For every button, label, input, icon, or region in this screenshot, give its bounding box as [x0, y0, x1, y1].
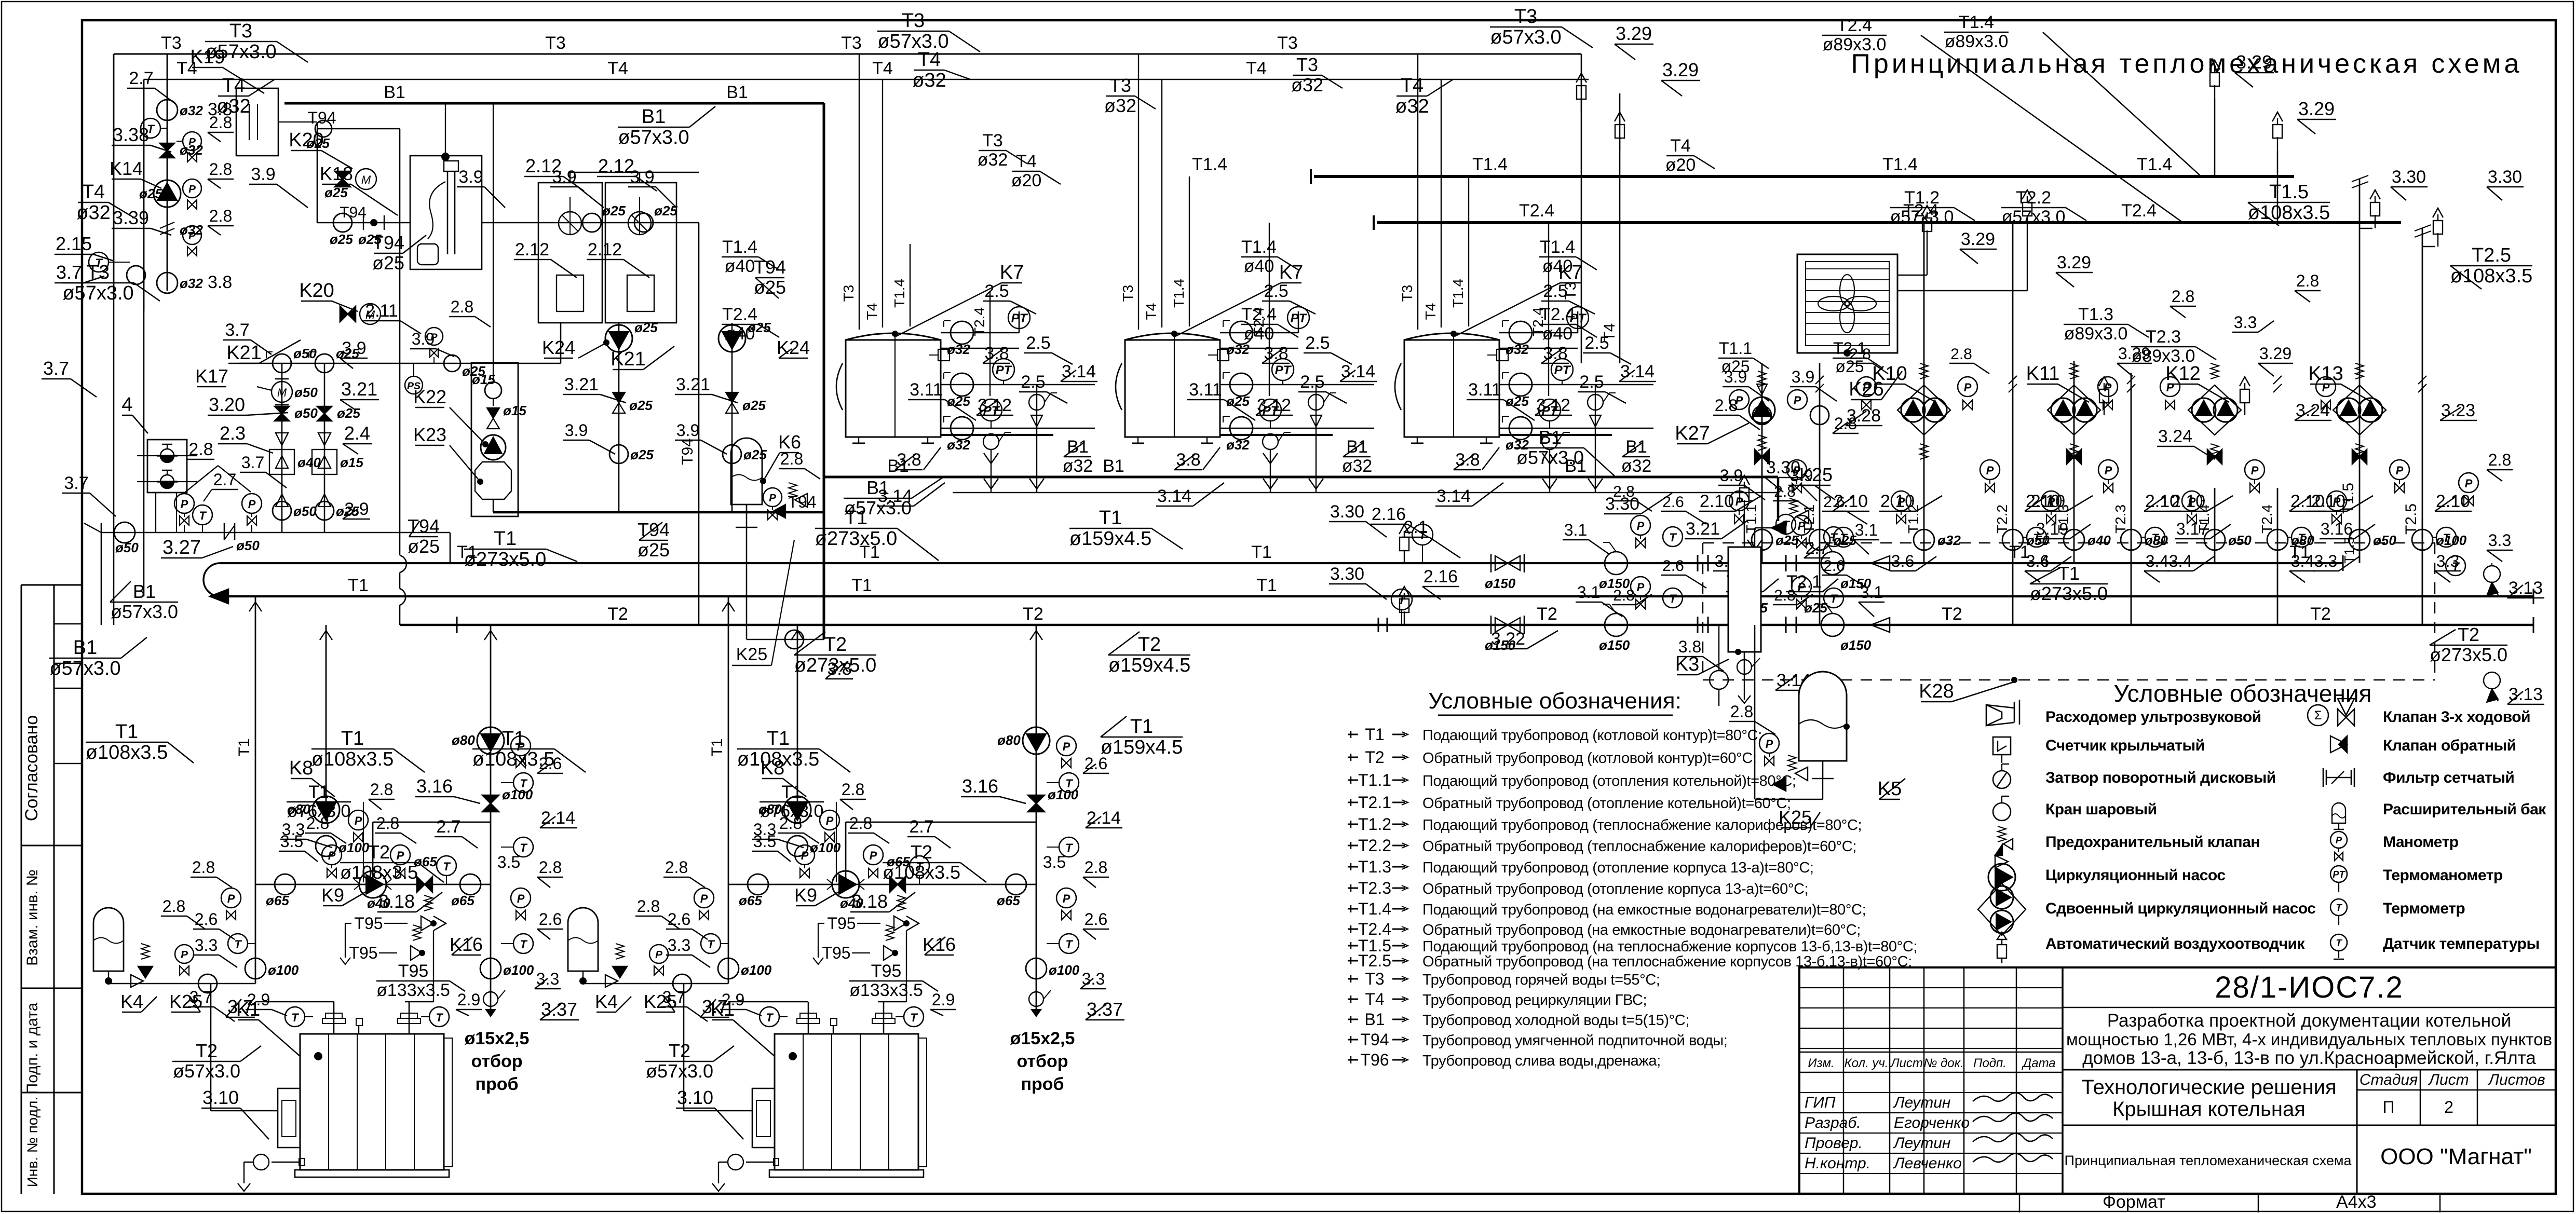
svg-text:ø50: ø50 — [294, 405, 318, 421]
svg-text:T1: T1 — [709, 738, 726, 756]
svg-text:Затвор поворотный дисковый: Затвор поворотный дисковый — [2045, 769, 2276, 786]
svg-text:ø100: ø100 — [268, 962, 299, 978]
svg-text:ø108x3.5: ø108x3.5 — [883, 862, 960, 883]
svg-text:T2.4: T2.4 — [2259, 504, 2275, 534]
svg-text:P: P — [517, 892, 525, 905]
svg-text:Сдвоенный циркуляционный насос: Сдвоенный циркуляционный насос — [2045, 900, 2315, 917]
svg-text:Согласовано: Согласовано — [22, 715, 42, 821]
svg-text:P: P — [2465, 477, 2473, 490]
svg-text:ø40: ø40 — [725, 256, 755, 276]
svg-text:3.3: 3.3 — [2488, 531, 2511, 550]
svg-text:2.5: 2.5 — [1026, 333, 1050, 353]
svg-text:2.8: 2.8 — [1084, 858, 1107, 877]
svg-text:Термометр: Термометр — [2383, 900, 2465, 917]
svg-text:3.1: 3.1 — [1577, 583, 1600, 602]
svg-text:2.6: 2.6 — [1084, 910, 1107, 929]
svg-text:T2.3: T2.3 — [2146, 327, 2181, 347]
svg-text:Условные обозначения: Условные обозначения — [2114, 680, 2372, 707]
svg-text:3.30: 3.30 — [2488, 167, 2522, 187]
svg-text:2.8: 2.8 — [637, 897, 660, 916]
svg-text:K14: K14 — [110, 158, 143, 179]
svg-text:ø32: ø32 — [180, 103, 203, 118]
svg-text:3.18: 3.18 — [851, 891, 888, 912]
svg-text:ø100: ø100 — [1048, 787, 1079, 802]
svg-text:ø108x3.5: ø108x3.5 — [311, 748, 394, 770]
svg-text:ø50: ø50 — [293, 503, 317, 519]
svg-text:T: T — [2336, 902, 2342, 913]
svg-text:3.21: 3.21 — [341, 378, 377, 400]
svg-text:2.15: 2.15 — [56, 233, 92, 254]
svg-text:3.29: 3.29 — [1662, 59, 1699, 80]
svg-text:2.10: 2.10 — [1880, 492, 1915, 511]
svg-text:T4: T4 — [1365, 990, 1384, 1008]
svg-text:Датчик температуры: Датчик температуры — [2383, 935, 2540, 952]
svg-text:K5: K5 — [1878, 778, 1902, 800]
svg-text:3.19: 3.19 — [2036, 520, 2068, 538]
svg-text:ø15: ø15 — [340, 455, 363, 470]
svg-text:Изм.: Изм. — [1808, 1056, 1834, 1070]
svg-text:ø32: ø32 — [947, 437, 970, 453]
svg-text:T1: T1 — [1365, 725, 1384, 744]
svg-text:ø65: ø65 — [739, 893, 762, 908]
svg-text:3.3: 3.3 — [753, 820, 776, 839]
svg-text:P: P — [181, 949, 188, 961]
svg-text:T2: T2 — [368, 841, 390, 863]
svg-text:ø57x3.0: ø57x3.0 — [1516, 447, 1584, 468]
svg-text:2.10: 2.10 — [2436, 492, 2470, 511]
svg-text:3.13: 3.13 — [2509, 685, 2543, 704]
svg-text:домов 13-а, 13-б, 13-в по ул.К: домов 13-а, 13-б, 13-в по ул.Красноармей… — [2082, 1048, 2536, 1068]
svg-text:P: P — [1794, 394, 1801, 407]
svg-text:Подп. и дата: Подп. и дата — [24, 1002, 41, 1094]
svg-text:T2: T2 — [2310, 604, 2331, 624]
svg-text:ø50: ø50 — [115, 540, 139, 555]
svg-text:T1.1: T1.1 — [1743, 504, 1759, 534]
svg-text:3.9: 3.9 — [458, 167, 483, 187]
svg-text:T3: T3 — [841, 33, 862, 53]
svg-text:K7: K7 — [1000, 262, 1024, 283]
svg-text:2.8: 2.8 — [1715, 396, 1738, 415]
svg-text:3.10: 3.10 — [202, 1087, 239, 1108]
svg-text:T: T — [2151, 531, 2159, 544]
svg-text:Фильтр сетчатый: Фильтр сетчатый — [2383, 769, 2514, 786]
svg-text:PT: PT — [1291, 311, 1308, 325]
svg-text:Автоматический воздухоотводчик: Автоматический воздухоотводчик — [2045, 935, 2305, 952]
svg-text:T2: T2 — [911, 841, 932, 863]
svg-text:T1.3: T1.3 — [2078, 305, 2113, 324]
svg-text:T95: T95 — [398, 961, 429, 981]
svg-text:P: P — [2105, 464, 2112, 477]
svg-text:ø25: ø25 — [372, 252, 404, 274]
svg-text:ø57x3.0: ø57x3.0 — [62, 282, 133, 304]
svg-text:T: T — [1669, 592, 1677, 605]
svg-text:P: P — [248, 498, 256, 511]
svg-text:Расходомер ультрозвуковой: Расходомер ультрозвуковой — [2045, 708, 2261, 726]
svg-text:ø65: ø65 — [266, 893, 289, 908]
svg-text:ø32: ø32 — [947, 342, 970, 357]
svg-text:3.4: 3.4 — [2026, 552, 2049, 570]
svg-text:ø80: ø80 — [758, 801, 782, 817]
svg-text:4: 4 — [121, 394, 132, 416]
svg-text:Клапан 3-х ходовой: Клапан 3-х ходовой — [2383, 708, 2530, 726]
svg-text:T95: T95 — [871, 961, 902, 981]
svg-text:T3: T3 — [902, 10, 925, 32]
svg-text:3.8: 3.8 — [1678, 637, 1701, 656]
svg-text:T4: T4 — [607, 59, 628, 78]
svg-text:3.24: 3.24 — [2158, 427, 2192, 446]
svg-text:Клапан обратный: Клапан обратный — [2383, 737, 2516, 754]
svg-text:ø150: ø150 — [1599, 637, 1630, 653]
svg-text:P: P — [870, 849, 877, 862]
svg-text:T: T — [2298, 531, 2306, 544]
svg-text:M: M — [277, 386, 287, 399]
svg-text:T2.5: T2.5 — [2472, 244, 2511, 266]
svg-text:T4: T4 — [222, 75, 245, 97]
svg-text:ø25: ø25 — [306, 135, 330, 151]
svg-text:Формат: Формат — [2103, 1192, 2165, 1212]
svg-text:T4: T4 — [1143, 303, 1159, 320]
svg-text:T2: T2 — [1023, 604, 1043, 624]
svg-text:T94: T94 — [754, 256, 786, 278]
svg-text:T1: T1 — [494, 528, 517, 550]
svg-text:Предохранительный клапан: Предохранительный клапан — [2045, 834, 2260, 851]
svg-text:B1: B1 — [1103, 456, 1124, 476]
svg-text:ø108x3.5: ø108x3.5 — [340, 862, 418, 883]
svg-text:Кол. уч.: Кол. уч. — [1845, 1056, 1889, 1070]
svg-text:ø57x3.0: ø57x3.0 — [1490, 26, 1561, 48]
svg-text:P: P — [2251, 464, 2259, 477]
svg-text:B1: B1 — [133, 581, 156, 602]
svg-text:2: 2 — [2444, 1098, 2453, 1116]
svg-text:T95: T95 — [822, 944, 850, 962]
svg-text:B1: B1 — [1364, 1010, 1385, 1029]
svg-text:3.21: 3.21 — [676, 375, 710, 394]
svg-text:ø25: ø25 — [947, 393, 970, 409]
svg-text:T1: T1 — [341, 728, 364, 749]
svg-text:Дата: Дата — [2021, 1056, 2055, 1070]
svg-text:T4: T4 — [1422, 303, 1439, 320]
svg-text:T3: T3 — [1109, 75, 1131, 96]
svg-text:ø159x4.5: ø159x4.5 — [1069, 528, 1151, 550]
svg-text:ø40: ø40 — [2087, 533, 2111, 548]
svg-text:B1: B1 — [642, 106, 666, 128]
svg-text:3.29: 3.29 — [2259, 344, 2292, 363]
svg-text:T: T — [520, 938, 527, 951]
svg-text:2.12: 2.12 — [588, 240, 622, 260]
svg-text:2.10: 2.10 — [2311, 492, 2345, 511]
svg-text:T: T — [766, 1011, 774, 1024]
svg-text:3.9: 3.9 — [676, 421, 699, 440]
svg-text:ø20: ø20 — [1011, 171, 1042, 190]
svg-text:T2: T2 — [196, 1040, 218, 1061]
svg-text:T2.4: T2.4 — [1358, 920, 1391, 938]
svg-text:P: P — [1766, 738, 1773, 751]
svg-text:3.20: 3.20 — [209, 394, 245, 415]
svg-text:T1: T1 — [457, 542, 478, 562]
svg-text:PT: PT — [1263, 404, 1280, 418]
svg-text:3.7: 3.7 — [43, 358, 69, 379]
svg-text:K8: K8 — [289, 757, 313, 779]
svg-text:Счетчик крыльчатый: Счетчик крыльчатый — [2045, 737, 2205, 754]
svg-text:ø100: ø100 — [1049, 962, 1080, 978]
svg-text:2.16: 2.16 — [1372, 504, 1406, 524]
svg-text:T2.4: T2.4 — [1837, 16, 1872, 35]
svg-text:Разраб.: Разраб. — [1805, 1114, 1861, 1131]
svg-text:ø50: ø50 — [236, 538, 260, 553]
svg-text:3.5: 3.5 — [497, 853, 520, 871]
svg-text:T: T — [910, 1011, 918, 1024]
svg-text:T4: T4 — [1670, 136, 1691, 156]
svg-text:3.3: 3.3 — [668, 936, 690, 954]
svg-text:Обратный трубопровод (отоплени: Обратный трубопровод (отопление корпуса … — [1422, 881, 1808, 897]
svg-text:ø32: ø32 — [1063, 456, 1093, 476]
svg-text:PT: PT — [1011, 311, 1028, 325]
svg-text:ø40: ø40 — [1542, 324, 1573, 344]
svg-text:2.8: 2.8 — [1849, 346, 1871, 363]
svg-text:Манометр: Манометр — [2383, 834, 2459, 851]
svg-text:T2: T2 — [824, 634, 847, 656]
svg-text:3.7: 3.7 — [662, 988, 685, 1006]
svg-text:ø273x5.0: ø273x5.0 — [2030, 583, 2108, 604]
svg-text:K24: K24 — [777, 337, 810, 358]
svg-text:№ док.: № док. — [1923, 1056, 1963, 1070]
svg-text:T1.4: T1.4 — [722, 237, 757, 257]
svg-text:3.7: 3.7 — [702, 996, 728, 1017]
svg-text:Трубопровод горячей воды t=55°: Трубопровод горячей воды t=55°C; — [1422, 972, 1660, 988]
svg-text:ø25: ø25 — [743, 447, 767, 462]
svg-text:T95: T95 — [354, 914, 383, 933]
svg-text:3.16: 3.16 — [2321, 520, 2353, 538]
svg-text:T4: T4 — [1401, 75, 1423, 97]
svg-text:T1.4: T1.4 — [1450, 279, 1466, 308]
svg-text:T2.4: T2.4 — [1519, 201, 1554, 221]
svg-text:3.1: 3.1 — [1564, 521, 1587, 539]
svg-text:3.6: 3.6 — [1891, 552, 1914, 570]
svg-text:K9: K9 — [321, 884, 344, 906]
svg-text:ø32: ø32 — [1506, 342, 1529, 357]
svg-text:T3: T3 — [982, 131, 1003, 151]
svg-text:отбор: отбор — [471, 1052, 522, 1071]
svg-text:T2.1: T2.1 — [1358, 793, 1391, 812]
svg-text:ø32: ø32 — [1395, 96, 1429, 117]
svg-text:2.7: 2.7 — [909, 817, 933, 837]
svg-text:T4: T4 — [1246, 59, 1267, 78]
svg-text:ø57x3.0: ø57x3.0 — [646, 1060, 713, 1082]
svg-text:2.6: 2.6 — [1662, 494, 1684, 511]
svg-text:ø57x3.0: ø57x3.0 — [844, 497, 912, 519]
svg-text:T3: T3 — [1120, 285, 1136, 302]
svg-text:2.8: 2.8 — [451, 297, 473, 316]
svg-text:3.7: 3.7 — [56, 262, 82, 283]
svg-text:2.5: 2.5 — [1584, 333, 1609, 353]
svg-text:P: P — [1637, 520, 1645, 533]
svg-text:3.5: 3.5 — [1043, 853, 1066, 871]
svg-text:2.9: 2.9 — [932, 990, 955, 1009]
svg-text:Принципиальная тепломеханическ: Принципиальная тепломеханическая схема — [2065, 1153, 2352, 1168]
svg-text:3.23: 3.23 — [2441, 401, 2475, 420]
svg-text:T1.4: T1.4 — [891, 279, 907, 308]
svg-text:M: M — [365, 308, 375, 321]
svg-text:PT: PT — [1570, 311, 1587, 325]
svg-text:T2.2: T2.2 — [1994, 504, 2010, 534]
svg-text:ø25: ø25 — [139, 186, 162, 201]
svg-text:ø25: ø25 — [629, 398, 653, 413]
svg-text:B1: B1 — [887, 456, 909, 476]
svg-text:T3: T3 — [229, 20, 252, 42]
svg-text:ø57x3.0: ø57x3.0 — [618, 127, 689, 148]
svg-text:2.6: 2.6 — [668, 910, 690, 929]
svg-text:PT: PT — [1275, 363, 1292, 377]
svg-text:Лист: Лист — [1890, 1056, 1923, 1070]
svg-text:28/1-ИОС7.2: 28/1-ИОС7.2 — [2215, 971, 2404, 1004]
svg-text:2.6: 2.6 — [195, 910, 218, 929]
svg-text:Обратный трубопровод (котловой: Обратный трубопровод (котловой контур)t=… — [1422, 750, 1757, 767]
svg-text:T3: T3 — [1277, 33, 1298, 53]
svg-text:Трубопровод холодной воды t=5(: Трубопровод холодной воды t=5(15)°C; — [1422, 1012, 1689, 1029]
svg-text:T1.4: T1.4 — [1540, 237, 1575, 257]
svg-text:Подающий трубопровод (котловой: Подающий трубопровод (котловой контур)t=… — [1422, 727, 1762, 744]
svg-text:Расширительный бак: Расширительный бак — [2383, 801, 2546, 818]
svg-text:ø25: ø25 — [1506, 393, 1529, 409]
svg-text:3.4: 3.4 — [2291, 552, 2314, 570]
svg-text:ООО "Магнат": ООО "Магнат" — [2380, 1144, 2532, 1169]
svg-text:T1: T1 — [236, 738, 253, 756]
svg-text:2.5: 2.5 — [1543, 281, 1567, 301]
svg-text:ø89x3.0: ø89x3.0 — [1823, 35, 1887, 54]
svg-text:2.12: 2.12 — [598, 155, 634, 176]
svg-text:2.9: 2.9 — [457, 990, 480, 1009]
svg-text:3.9: 3.9 — [565, 421, 588, 440]
svg-text:T: T — [2443, 531, 2450, 544]
svg-text:2.5: 2.5 — [984, 281, 1009, 301]
svg-text:T95: T95 — [827, 914, 856, 933]
svg-text:2.8: 2.8 — [2172, 287, 2194, 306]
svg-text:ø273x5.0: ø273x5.0 — [815, 528, 897, 550]
svg-text:проб: проб — [475, 1074, 518, 1094]
svg-text:Подающий трубопровод (на тепло: Подающий трубопровод (на теплоснабжение … — [1422, 938, 1917, 955]
svg-text:2.8: 2.8 — [1774, 483, 1796, 500]
svg-text:Листов: Листов — [2487, 1071, 2545, 1088]
svg-text:K4: K4 — [120, 991, 143, 1012]
svg-text:T2: T2 — [607, 604, 628, 624]
svg-text:Обратный трубопровод (на тепло: Обратный трубопровод (на теплоснабжение … — [1422, 953, 1912, 970]
svg-text:P: P — [188, 183, 196, 195]
svg-text:T1.4: T1.4 — [1358, 899, 1391, 918]
svg-text:P: P — [655, 949, 662, 961]
svg-text:ø65: ø65 — [451, 893, 474, 908]
svg-text:3.29: 3.29 — [2298, 98, 2335, 119]
svg-text:Σ: Σ — [2314, 708, 2322, 722]
svg-text:T1.4: T1.4 — [1882, 155, 1918, 174]
svg-text:ø100: ø100 — [503, 962, 534, 978]
svg-text:ø32: ø32 — [1104, 95, 1136, 116]
svg-text:ø57x3.0: ø57x3.0 — [173, 1060, 240, 1082]
svg-text:T1.3: T1.3 — [1358, 857, 1391, 876]
svg-text:2.12: 2.12 — [525, 155, 562, 176]
svg-text:3.9: 3.9 — [1720, 466, 1743, 485]
svg-text:Разработка проектной документа: Разработка проектной документации котель… — [2107, 1011, 2511, 1031]
svg-text:T: T — [707, 938, 715, 951]
svg-text:3.18: 3.18 — [378, 891, 415, 912]
svg-text:ø100: ø100 — [502, 787, 533, 802]
svg-text:T2.5: T2.5 — [1358, 951, 1391, 970]
svg-text:ø25: ø25 — [742, 398, 766, 413]
svg-text:K25: K25 — [1779, 807, 1812, 828]
svg-text:K22: K22 — [413, 386, 446, 407]
svg-text:B1: B1 — [1539, 427, 1562, 448]
svg-text:T2.4: T2.4 — [2121, 201, 2157, 221]
svg-text:T: T — [1782, 519, 1790, 531]
svg-text:3.4: 3.4 — [2146, 552, 2168, 570]
svg-text:ø50: ø50 — [2228, 533, 2252, 548]
svg-text:отбор: отбор — [1016, 1052, 1068, 1071]
svg-text:PT: PT — [996, 363, 1013, 377]
svg-text:P: P — [700, 892, 708, 905]
svg-text:ø25: ø25 — [330, 231, 353, 247]
svg-text:3.4: 3.4 — [2169, 552, 2192, 570]
svg-text:ø40: ø40 — [297, 455, 321, 470]
svg-text:P: P — [1964, 381, 1972, 394]
svg-text:P: P — [227, 892, 235, 905]
svg-text:2.14: 2.14 — [1087, 808, 1121, 828]
svg-text:ø15x2,5: ø15x2,5 — [465, 1029, 530, 1048]
svg-text:ø25: ø25 — [630, 447, 654, 462]
svg-text:проб: проб — [1021, 1074, 1064, 1094]
svg-text:ø25: ø25 — [324, 185, 348, 200]
svg-text:2.10: 2.10 — [2031, 492, 2065, 511]
svg-text:3.14: 3.14 — [1436, 486, 1471, 506]
svg-text:3.3: 3.3 — [2234, 313, 2257, 332]
svg-text:2.8: 2.8 — [780, 449, 803, 468]
svg-text:2.10: 2.10 — [2171, 492, 2205, 511]
svg-text:2.8: 2.8 — [849, 814, 872, 833]
svg-text:2.8: 2.8 — [2296, 271, 2319, 290]
svg-text:T1: T1 — [1130, 716, 1153, 738]
svg-text:ø133x3.5: ø133x3.5 — [376, 980, 450, 1000]
svg-text:T4: T4 — [864, 303, 880, 320]
svg-text:K9: K9 — [794, 884, 817, 906]
svg-text:Термоманометр: Термоманометр — [2383, 867, 2503, 884]
svg-text:ø159x4.5: ø159x4.5 — [1108, 654, 1190, 676]
svg-text:3.7: 3.7 — [64, 473, 88, 493]
svg-text:K27: K27 — [1675, 422, 1710, 444]
svg-text:3.9: 3.9 — [342, 338, 366, 358]
svg-text:T2: T2 — [1365, 748, 1384, 767]
svg-text:ø273x5.0: ø273x5.0 — [794, 654, 876, 676]
svg-text:3.14: 3.14 — [1620, 362, 1655, 381]
svg-text:3.11: 3.11 — [910, 380, 943, 400]
svg-text:T3: T3 — [1399, 285, 1415, 302]
svg-text:T: T — [1065, 938, 1073, 951]
svg-text:PT: PT — [2333, 869, 2345, 880]
svg-text:3.9: 3.9 — [1792, 367, 1814, 386]
svg-text:ø150: ø150 — [1840, 637, 1872, 653]
svg-text:Леутин: Леутин — [1893, 1135, 1950, 1152]
svg-text:2.8: 2.8 — [188, 440, 213, 459]
svg-text:K19: K19 — [190, 46, 225, 68]
svg-text:ø108x3.5: ø108x3.5 — [2450, 265, 2532, 287]
svg-text:P: P — [188, 136, 196, 148]
svg-text:T1.1: T1.1 — [1358, 771, 1391, 789]
svg-text:T1.5: T1.5 — [2269, 181, 2309, 203]
svg-text:ø89x3.0: ø89x3.0 — [2064, 324, 2128, 344]
svg-text:T94: T94 — [307, 108, 336, 127]
svg-text:K7: K7 — [1279, 262, 1303, 283]
svg-text:T1.4: T1.4 — [2137, 155, 2172, 174]
svg-text:P: P — [181, 498, 188, 511]
svg-text:T94: T94 — [1360, 1030, 1389, 1049]
svg-text:T3: T3 — [1296, 54, 1318, 75]
